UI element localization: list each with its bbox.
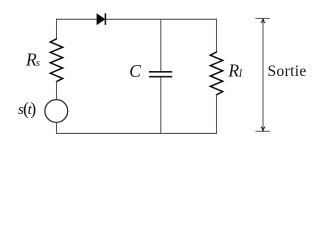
wire middle upper	[160, 19, 162, 71]
sortie bottom arrowhead	[261, 127, 265, 132]
wire middle lower	[160, 77, 162, 134]
wire right upper	[216, 19, 218, 53]
wire bottom	[56, 132, 217, 134]
sortie top tick	[255, 17, 269, 19]
sortie arrow line	[262, 20, 264, 131]
resistor Rs	[50, 39, 62, 82]
label Rl	[227, 61, 242, 81]
wire top-left segment	[56, 18, 97, 20]
sortie top arrowhead	[261, 18, 265, 23]
svg-text:R: R	[227, 61, 239, 81]
wire left middle	[56, 81, 58, 100]
wire right lower	[216, 95, 218, 134]
sortie bottom tick	[255, 130, 269, 132]
wire top-right segment	[106, 18, 217, 20]
label Sortie	[268, 63, 307, 80]
resistor Rl	[210, 52, 222, 95]
svg-text:Sortie: Sortie	[268, 63, 307, 80]
wire left upper	[56, 19, 58, 40]
wire left lower	[56, 122, 58, 134]
diode	[97, 13, 105, 25]
svg-text:C: C	[129, 61, 141, 81]
label s(t)	[18, 99, 36, 119]
source s(t)	[45, 100, 68, 123]
label Rs	[25, 49, 40, 69]
svg-text:l: l	[239, 68, 242, 80]
svg-text:): )	[30, 99, 36, 119]
capacitor C	[149, 72, 172, 77]
label C	[129, 61, 141, 81]
svg-text:s: s	[36, 57, 40, 69]
